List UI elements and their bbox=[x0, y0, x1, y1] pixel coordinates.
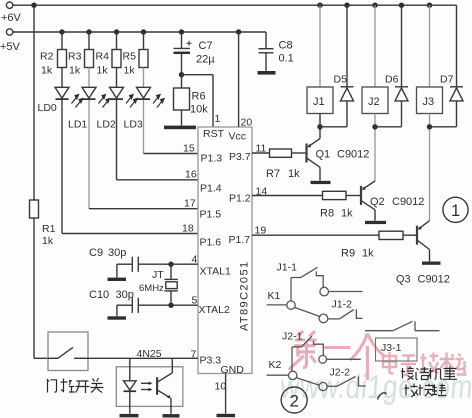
svg-text:16: 16 bbox=[185, 169, 197, 181]
svg-text:J3: J3 bbox=[423, 96, 435, 108]
svg-text:1k: 1k bbox=[124, 65, 136, 77]
svg-text:17: 17 bbox=[184, 198, 196, 210]
svg-text:+6V: +6V bbox=[1, 12, 22, 24]
svg-text:P1.7: P1.7 bbox=[229, 234, 251, 246]
svg-text:P1.4: P1.4 bbox=[200, 183, 222, 195]
svg-text:C9: C9 bbox=[89, 247, 103, 259]
svg-text:1k: 1k bbox=[41, 65, 53, 77]
svg-text:C9012: C9012 bbox=[418, 274, 450, 286]
svg-text:Q3: Q3 bbox=[396, 274, 411, 286]
svg-text:JT: JT bbox=[152, 269, 164, 281]
svg-text:RST: RST bbox=[203, 128, 225, 140]
svg-text:6MHz: 6MHz bbox=[139, 283, 164, 294]
svg-text:Vcc: Vcc bbox=[229, 131, 247, 143]
svg-text:R2: R2 bbox=[40, 51, 54, 63]
svg-text:J1: J1 bbox=[313, 96, 325, 108]
svg-text:P1.2: P1.2 bbox=[229, 193, 251, 205]
svg-text:1k: 1k bbox=[97, 65, 109, 77]
svg-text:1k: 1k bbox=[69, 65, 81, 77]
svg-text:LD2: LD2 bbox=[97, 119, 116, 131]
svg-text:R8: R8 bbox=[320, 208, 334, 220]
svg-text:0.1: 0.1 bbox=[279, 53, 294, 65]
svg-text:P3.7: P3.7 bbox=[229, 151, 251, 163]
svg-text:LD3: LD3 bbox=[124, 119, 143, 131]
svg-text:1k: 1k bbox=[362, 248, 374, 260]
svg-text:1k: 1k bbox=[42, 235, 54, 247]
svg-text:1k: 1k bbox=[341, 208, 353, 220]
svg-text:J2-1: J2-1 bbox=[282, 331, 303, 343]
svg-text:P1.6: P1.6 bbox=[200, 237, 222, 249]
svg-text:10: 10 bbox=[215, 381, 227, 393]
svg-text:XTAL1: XTAL1 bbox=[200, 266, 231, 278]
svg-text:R3: R3 bbox=[68, 51, 82, 63]
svg-text:J1-1: J1-1 bbox=[277, 262, 298, 274]
svg-text:1: 1 bbox=[215, 113, 221, 125]
svg-text:C10: C10 bbox=[89, 289, 109, 301]
svg-text:D6: D6 bbox=[385, 74, 399, 86]
svg-text:22µ: 22µ bbox=[196, 54, 215, 66]
svg-text:C8: C8 bbox=[279, 40, 293, 52]
svg-text:LD1: LD1 bbox=[68, 119, 87, 131]
svg-text:P3.3: P3.3 bbox=[200, 355, 222, 367]
svg-text:GND: GND bbox=[221, 364, 245, 376]
svg-text:+5V: +5V bbox=[0, 41, 21, 53]
svg-text:R6: R6 bbox=[192, 91, 206, 103]
svg-text:Q1: Q1 bbox=[316, 149, 331, 161]
svg-text:P1.3: P1.3 bbox=[201, 153, 223, 165]
svg-text:J3-1: J3-1 bbox=[381, 342, 402, 354]
svg-text:D5: D5 bbox=[334, 74, 348, 86]
svg-text:J1-2: J1-2 bbox=[332, 299, 353, 311]
svg-text:15: 15 bbox=[183, 143, 195, 155]
svg-text:C9012: C9012 bbox=[392, 196, 424, 208]
svg-text:4N25: 4N25 bbox=[137, 348, 162, 360]
svg-text:LD0: LD0 bbox=[38, 102, 57, 114]
svg-text:2: 2 bbox=[290, 392, 299, 411]
svg-text:20: 20 bbox=[241, 117, 253, 129]
svg-text:R4: R4 bbox=[96, 51, 110, 63]
svg-text:J2-2: J2-2 bbox=[330, 367, 351, 379]
svg-text:18: 18 bbox=[182, 223, 194, 235]
svg-text:10k: 10k bbox=[190, 104, 208, 116]
svg-text:30p: 30p bbox=[116, 289, 134, 301]
svg-text:C9012: C9012 bbox=[337, 149, 369, 161]
svg-text:R5: R5 bbox=[123, 51, 137, 63]
svg-text:1: 1 bbox=[451, 202, 460, 220]
svg-text:K2: K2 bbox=[269, 359, 282, 371]
svg-text:R1: R1 bbox=[42, 223, 56, 235]
svg-text:R7: R7 bbox=[266, 168, 280, 180]
svg-text:D7: D7 bbox=[440, 74, 454, 86]
svg-text:30p: 30p bbox=[108, 247, 126, 259]
svg-text:K1: K1 bbox=[268, 290, 281, 302]
svg-text:AT89C2051: AT89C2051 bbox=[239, 261, 251, 332]
svg-text:Q2: Q2 bbox=[370, 196, 385, 208]
svg-text:P1.5: P1.5 bbox=[200, 209, 222, 221]
svg-text:XTAL2: XTAL2 bbox=[199, 304, 230, 316]
svg-text:R9: R9 bbox=[341, 248, 355, 260]
svg-text:1k: 1k bbox=[288, 168, 300, 180]
svg-text:C7: C7 bbox=[199, 40, 213, 52]
svg-text:J2: J2 bbox=[368, 96, 380, 108]
